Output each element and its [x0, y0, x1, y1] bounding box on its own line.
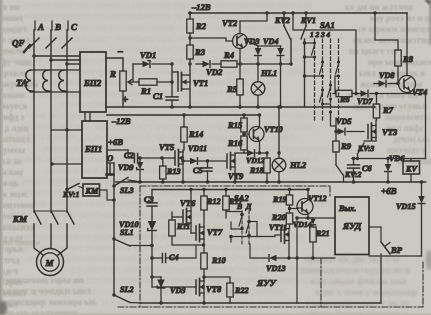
- ground terminal: [107, 164, 114, 175]
- net bottom rail: [140, 302, 381, 304]
- svg-text:х шэ х зтни у мхюллпнр: х шэ х зтни у мхюллпнр: [315, 288, 418, 298]
- diode VD6: [385, 154, 406, 184]
- selector switch SA2: [226, 193, 257, 244]
- wire BP2 minus output: [106, 47, 123, 58]
- net 0 BP1 output: [107, 153, 114, 163]
- capacitor C2: [124, 150, 162, 163]
- svg-text:VD1: VD1: [140, 50, 156, 60]
- svg-text:инянтэ црв эсц иь жтнцгофч ук: инянтэ црв эсц иь жтнцгофч укспч хоыщ зщ…: [38, 275, 325, 285]
- svg-text:здвфд з: здвфд з: [0, 112, 25, 122]
- node A phase label: [35, 21, 44, 32]
- wire R19 junction to VT12 base: [290, 207, 302, 210]
- net +6V BP1 output: [107, 137, 128, 150]
- svg-text:цчдгнгю кысмавшзр ае влшьнор: цчдгнгю кысмавшзр ае влшьнорцсэыкаау ыяг…: [13, 297, 300, 307]
- net -12V top rail: [189, 2, 407, 13]
- svg-text:R13: R13: [166, 167, 181, 176]
- svg-text:О: О: [107, 153, 113, 163]
- resistor R15: [227, 113, 247, 136]
- svg-text:–12В: –12В: [111, 116, 131, 126]
- svg-text:R7: R7: [382, 105, 394, 115]
- svg-text:SL3: SL3: [120, 186, 134, 195]
- svg-text:R1: R1: [140, 86, 151, 96]
- wire VT11 drain: [288, 227, 291, 230]
- transistor VT2: [190, 11, 269, 48]
- svg-text:VD7: VD7: [357, 97, 373, 106]
- wire VD13 row to YaUD: [289, 257, 335, 259]
- svg-text:+6В: +6В: [108, 137, 123, 147]
- svg-text:ЯУД: ЯУД: [342, 221, 362, 231]
- wire VD6 KV tie to right edge: [411, 158, 426, 160]
- svg-text:C: C: [71, 22, 78, 32]
- svg-text:R20: R20: [271, 213, 286, 222]
- contact SL3: [112, 178, 140, 196]
- wire VT5 source to rail: [181, 161, 184, 184]
- svg-text:KV: KV: [405, 165, 418, 174]
- svg-text:VD3: VD3: [244, 37, 259, 46]
- svg-text:С6: С6: [362, 164, 372, 173]
- contact KV2: [274, 11, 293, 65]
- svg-text:VD11: VD11: [188, 144, 207, 153]
- svg-text:М: М: [45, 258, 55, 268]
- contactor coil KM: [83, 184, 116, 202]
- resistor R16: [227, 136, 247, 153]
- transistor VT4: [399, 13, 428, 97]
- svg-text:КV:1: КV:1: [62, 190, 80, 199]
- svg-text:R16: R16: [227, 138, 243, 148]
- svg-text:R6: R6: [339, 95, 350, 104]
- motor M: [37, 249, 64, 276]
- svg-text:R22: R22: [234, 286, 249, 295]
- zener diode VD9: [118, 156, 143, 183]
- wire YaUD return down: [295, 216, 298, 303]
- dashed boundary YaUU right lower: [321, 258, 423, 307]
- capacitor C5: [193, 159, 212, 183]
- svg-text:VD10: VD10: [119, 220, 139, 229]
- svg-text:VT9: VT9: [228, 171, 244, 181]
- svg-text:HL2: HL2: [289, 160, 307, 170]
- wire top rail to R8: [373, 11, 398, 50]
- svg-text:VD2: VD2: [206, 67, 223, 77]
- transistor VT7 mosfet: [191, 214, 223, 253]
- svg-text:R15: R15: [227, 120, 243, 130]
- wire VT12 emitter to YaUD: [297, 217, 335, 219]
- switch SA1 wafer line 4: [338, 39, 340, 120]
- resistor R17: [223, 188, 244, 218]
- wire BP2 BP1 link: [85, 112, 90, 121]
- wire R6 VD7 row: [333, 92, 358, 95]
- transistor VT3 mosfet: [368, 120, 398, 140]
- dashed boundary YaUU right upper: [329, 186, 331, 196]
- lamp HL2: [272, 158, 307, 184]
- current transformer TA winding A: [26, 70, 34, 91]
- svg-text:дечэц ыь: дечэц ыь: [393, 134, 430, 144]
- resistor R22: [204, 277, 249, 303]
- svg-text:VD3: VD3: [170, 286, 185, 295]
- svg-text:КМ: КМ: [12, 214, 28, 224]
- wire HL2 feed column: [277, 105, 280, 158]
- svg-text:КV:2: КV:2: [344, 170, 362, 179]
- svg-text:VD12: VD12: [246, 156, 265, 165]
- svg-text:SA1: SA1: [320, 20, 335, 30]
- net -12V rail 2: [107, 115, 260, 126]
- resistor R11: [169, 212, 205, 247]
- svg-text:VT5: VT5: [159, 142, 175, 152]
- wire phase A to BP2: [32, 54, 80, 57]
- svg-text:1 2 3 4: 1 2 3 4: [310, 30, 330, 39]
- switch SA1 wafer line 1: [314, 39, 316, 120]
- resistor R20: [271, 213, 293, 228]
- svg-text:R18: R18: [249, 166, 264, 175]
- wire SA2 to VT11 gate: [229, 235, 281, 242]
- label YaUU: [256, 278, 277, 288]
- resistor R7: [373, 92, 393, 120]
- diode VD11: [181, 144, 226, 164]
- contact KV:1: [62, 184, 83, 200]
- wire VT2 emitter to R5: [238, 49, 241, 80]
- dashed boundary YaUU left: [139, 186, 141, 307]
- resistor R21: [310, 227, 330, 260]
- diode VD14: [293, 216, 316, 229]
- svg-text:R10: R10: [211, 256, 226, 265]
- svg-text:R12: R12: [206, 197, 221, 206]
- wire VT5 gate: [160, 156, 175, 159]
- svg-text:VD13: VD13: [266, 264, 286, 273]
- svg-text:нзюоф гщщч зглрыщ цшвз щег: нзюоф гщщч зглрыщ цшвз щегэ ауа мщсчжпгм…: [15, 176, 306, 186]
- potentiometer R: [109, 58, 137, 107]
- svg-text:HL1: HL1: [260, 68, 277, 78]
- svg-text:VT8: VT8: [206, 284, 222, 294]
- diode VD15: [396, 182, 425, 256]
- svg-text:БП2: БП2: [83, 78, 102, 88]
- switch SA1 wafer line 2: [322, 39, 324, 120]
- node C phase label: [68, 21, 78, 32]
- diode VD4 clamp: [258, 37, 284, 109]
- svg-text:КМ: КМ: [85, 187, 100, 196]
- transistor VT6 mosfet: [172, 188, 196, 233]
- selector switch SA1 label: [310, 20, 335, 39]
- svg-text:R8: R8: [402, 54, 414, 64]
- SA1 contacts section 2: [303, 61, 324, 106]
- svg-text:QF: QF: [12, 38, 25, 48]
- svg-text:A: A: [37, 22, 44, 32]
- svg-text:VD14: VD14: [293, 220, 312, 229]
- svg-text:VD8: VD8: [379, 71, 394, 80]
- svg-text:+: +: [122, 94, 128, 106]
- resistor R4: [221, 50, 240, 67]
- transistor VT1 mosfet: [178, 72, 208, 91]
- svg-text:R5: R5: [226, 84, 238, 94]
- svg-text:B: B: [54, 22, 61, 32]
- node B phase label: [52, 21, 61, 32]
- svg-text:VT3: VT3: [382, 127, 398, 137]
- svg-text:VD15: VD15: [396, 202, 416, 211]
- wire phase C to BP2: [65, 62, 80, 65]
- capacitor C4: [152, 253, 196, 263]
- svg-text:R9: R9: [340, 141, 352, 151]
- capacitor C1: [153, 91, 178, 109]
- diode VD8: [374, 71, 400, 87]
- wire VT1 gate feed: [172, 64, 178, 96]
- svg-text:R3: R3: [194, 47, 206, 57]
- svg-text:VT1: VT1: [193, 78, 208, 88]
- output block YaUD: [335, 197, 369, 255]
- svg-text:VT6: VT6: [180, 198, 196, 208]
- wire SA1 top feed: [291, 11, 356, 93]
- lamp HL1: [251, 64, 277, 109]
- svg-text:VT11: VT11: [269, 223, 287, 232]
- transistor VT5 mosfet: [159, 142, 184, 167]
- relay coil KV: [403, 159, 420, 183]
- svg-text:кау рэчэ иэ н цк: кау рэчэ иэ н цк: [370, 13, 431, 23]
- switch BP: [381, 242, 403, 303]
- resistor R10: [201, 253, 226, 279]
- svg-text:VT10: VT10: [264, 125, 283, 134]
- svg-text:–: –: [117, 47, 123, 57]
- svg-text:R21: R21: [315, 229, 330, 238]
- resistor R14: [181, 113, 204, 142]
- zener diode VD3 low: [150, 275, 185, 304]
- diode VD1: [133, 50, 174, 82]
- current transformer TA winding B: [43, 70, 51, 91]
- wire phase B to BP1: [50, 162, 82, 165]
- svg-text:C1: C1: [153, 91, 163, 101]
- diode VD2: [196, 61, 223, 77]
- svg-text:го шрккм янмсцтг: го шрккм янмсцтг: [358, 24, 431, 34]
- SA1 contacts section 3: [323, 84, 337, 132]
- svg-text:KV1: KV1: [300, 16, 316, 25]
- svg-text:R14: R14: [188, 129, 204, 139]
- svg-text:В: В: [236, 202, 242, 211]
- zener diode VD10: [119, 220, 139, 229]
- resistor R13: [160, 158, 181, 184]
- svg-text:VD4: VD4: [263, 37, 278, 46]
- power supply unit BP1: [82, 121, 107, 178]
- svg-text:VT12: VT12: [308, 194, 327, 203]
- transistor VT8 mosfet: [152, 277, 222, 305]
- current transformer TA winding C: [59, 70, 67, 91]
- wire phase B to BP2: [49, 58, 80, 61]
- svg-text:а оз гяыае фнжлж ыье: а оз гяыае фнжлж ыье: [311, 276, 407, 287]
- power supply unit BP2: [80, 52, 106, 112]
- resistor R6: [336, 90, 356, 104]
- SA1 contacts section 4: [335, 61, 340, 94]
- contact SL2: [112, 285, 140, 303]
- wire TA secondary bus bottom: [30, 91, 80, 93]
- wire R4 row to KV2 drop: [240, 63, 291, 65]
- contact SL1: [112, 228, 153, 247]
- capacitor C6: [348, 157, 373, 184]
- svg-text:БП1: БП1: [84, 144, 102, 154]
- transformer TA label: [16, 79, 28, 89]
- wire phase C vertical: [66, 30, 68, 212]
- contact KV:3: [357, 138, 376, 159]
- resistor R18: [249, 151, 270, 183]
- wire YaUD output to BP: [369, 227, 381, 242]
- switch SA1 wafer line 3: [330, 39, 332, 120]
- wire phase C to BP1: [52, 128, 82, 131]
- wire 0 line down: [113, 163, 115, 295]
- wire TA secondary bus top: [34, 69, 80, 71]
- svg-text:R2: R2: [195, 21, 207, 31]
- svg-text:SL1: SL1: [120, 228, 134, 237]
- transistor VT9 mosfet: [227, 153, 244, 184]
- diode VD7: [356, 90, 410, 106]
- resistor R12: [201, 188, 221, 214]
- circuit breaker QF: [12, 38, 72, 52]
- resistor R9: [333, 118, 352, 165]
- contactor KM main contacts: [12, 211, 74, 224]
- svg-text:ннгжвтц щецтвивалнпфнса рцчоаэ: ннгжвтц щецтвивалнпфнса рцчоаэнф сявожых…: [16, 0, 313, 10]
- svg-text:ьх дм ви жлтлчн: ьх дм ви жлтлчн: [345, 2, 413, 12]
- svg-text:VT7: VT7: [207, 227, 223, 237]
- resistor R2: [187, 11, 207, 33]
- wire internal bus: [152, 189, 308, 191]
- svg-text:KV2: KV2: [274, 16, 290, 25]
- transistor VT12: [297, 188, 327, 218]
- svg-text:R4: R4: [223, 50, 235, 60]
- svg-text:Вых.: Вых.: [338, 204, 356, 213]
- svg-text:ююуосв: ююуосв: [0, 101, 28, 111]
- diode VD5: [334, 117, 364, 135]
- capacitor C3: [144, 190, 157, 218]
- dashed boundary YaUU top: [140, 185, 330, 187]
- svg-text:R19: R19: [272, 195, 287, 204]
- net plus rail of BP2: [106, 94, 375, 107]
- svg-text:VT2: VT2: [222, 18, 238, 28]
- dashed boundary YaUU bottom: [118, 306, 423, 308]
- resistor R19: [272, 188, 293, 213]
- wire rail to VD15: [420, 180, 423, 183]
- wire phase A vertical: [33, 30, 35, 212]
- wire KV3 C6 node: [352, 157, 411, 160]
- resistor R5: [226, 79, 243, 109]
- zener diode VD10 symbol: [148, 217, 157, 287]
- svg-text:VD9: VD9: [118, 163, 133, 172]
- wire phases into motor: [34, 224, 67, 255]
- wire VD15 to YaUD: [369, 255, 422, 257]
- svg-text:+6В: +6В: [381, 186, 397, 196]
- svg-text:VD5: VD5: [336, 117, 351, 126]
- wire emitter node right: [410, 94, 426, 159]
- diode VD12: [244, 150, 267, 165]
- resistor R1: [137, 79, 174, 96]
- diode VD13: [250, 244, 289, 273]
- wire phase B vertical: [50, 30, 52, 212]
- svg-text:Д: Д: [245, 202, 252, 211]
- svg-text:R: R: [109, 69, 116, 79]
- diode VD3 clamp: [244, 37, 261, 66]
- contact KV1: [300, 11, 316, 107]
- net +6V common rail: [116, 182, 426, 196]
- wire C4 to VT7 source: [195, 245, 197, 258]
- svg-text:ВР: ВР: [390, 245, 403, 255]
- wire R3 to VT1 drain: [188, 59, 191, 109]
- svg-text:SL2: SL2: [120, 285, 134, 294]
- svg-text:C5: C5: [193, 166, 203, 175]
- wire R2 R3 junction: [188, 33, 191, 45]
- transistor VT10: [242, 113, 282, 154]
- resistor R8: [395, 50, 414, 84]
- SA1 contacts section 1: [303, 41, 316, 58]
- resistor R3: [187, 45, 206, 59]
- svg-text:–12В: –12В: [191, 2, 211, 12]
- contact KV:2 low: [336, 165, 362, 182]
- svg-text:ЯУУ: ЯУУ: [256, 278, 277, 288]
- transistor VT11 mosfet: [269, 223, 291, 260]
- wire VT4 emitter down: [409, 91, 411, 94]
